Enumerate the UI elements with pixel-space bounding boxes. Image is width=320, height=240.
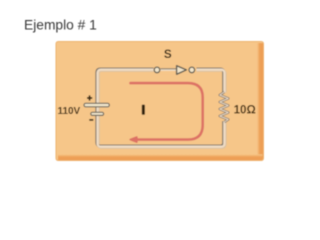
switch blade wire bbox=[161, 68, 177, 71]
battery positive plate (long) bbox=[84, 103, 109, 107]
battery plus sign bbox=[87, 95, 92, 100]
photo background (scanned book figure) bbox=[56, 42, 264, 161]
battery negative plate (short) bbox=[91, 112, 104, 115]
resistor zigzag bbox=[220, 92, 228, 122]
svg-text:10Ω: 10Ω bbox=[234, 103, 256, 116]
wire loop (circuit rectangle, tube style: shadow, dark edge, light core) bbox=[97, 69, 225, 148]
current label I bbox=[142, 105, 145, 115]
switch blade arrow head bbox=[177, 66, 187, 75]
svg-text:S: S bbox=[164, 48, 172, 61]
current arrowhead bbox=[130, 137, 137, 142]
wire gap for switch bbox=[154, 66, 197, 74]
switch right terminal bbox=[189, 67, 195, 73]
svg-text:110V: 110V bbox=[58, 106, 81, 117]
svg-text:Ejemplo # 1: Ejemplo # 1 bbox=[24, 17, 97, 32]
wire gap for resistor bbox=[222, 93, 228, 122]
battery minus sign bbox=[89, 119, 93, 121]
switch left terminal bbox=[154, 67, 160, 73]
current direction arrow (loop) bbox=[131, 83, 203, 140]
